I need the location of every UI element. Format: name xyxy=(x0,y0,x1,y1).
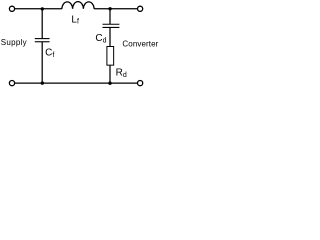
svg-text:Supply: Supply xyxy=(1,38,27,47)
svg-text:Converter: Converter xyxy=(122,40,158,49)
